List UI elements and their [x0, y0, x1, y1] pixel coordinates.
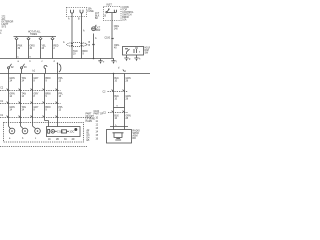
coil K1 [58, 64, 61, 74]
horn box [107, 130, 132, 144]
wire from JB down [111, 21, 113, 59]
connector line D2 [0, 103, 61, 105]
fuse F3 [39, 37, 42, 59]
wire W3 [32, 74, 34, 123]
switch S5 inside [106, 12, 107, 13]
node labels right of bus2 tick [125, 71, 127, 73]
fuse F2 [27, 37, 30, 59]
tie line right pair [114, 107, 125, 109]
svg-text:1K: 1K [48, 139, 51, 141]
switch S2 [22, 64, 25, 74]
fuse F1 [15, 37, 18, 59]
fuse F4 [51, 37, 54, 59]
resistor block [62, 130, 67, 133]
node legend text block [86, 113, 99, 143]
wire from F5 down [71, 17, 73, 59]
node lamp box labels [9, 138, 75, 141]
connector line D4 right [108, 112, 128, 114]
svg-text:RR: RR [133, 138, 137, 140]
wire W6 right [113, 74, 115, 130]
ground G1 [98, 59, 102, 61]
wire W4 [45, 74, 49, 127]
wire feed bracket HOT bus [14, 36, 57, 38]
motor M1 [51, 130, 55, 134]
wire from F6 down [81, 17, 83, 59]
horn symbol [113, 133, 124, 140]
connector C100 on wire [112, 38, 114, 39]
contacts inside [134, 48, 138, 53]
fuse block FB1 dashed box [67, 8, 87, 17]
junction block JB dashed box top-right [104, 7, 122, 21]
switch S1 [9, 64, 12, 74]
fuse F7 inside [114, 10, 116, 13]
fuse F5 [71, 10, 74, 17]
node label left of junction block [95, 13, 100, 20]
node wire label ORG [114, 26, 119, 31]
connector line D3 [0, 117, 92, 119]
horn tie [110, 126, 128, 128]
node wire labels row C [10, 106, 64, 112]
circuit breaker CB1 [92, 27, 96, 31]
node wire labels below C1 [73, 50, 88, 56]
wire W1 [8, 74, 10, 123]
ground G4 [134, 55, 138, 58]
node CB1 labels [95, 28, 101, 41]
svg-text:BKR: BKR [96, 30, 101, 32]
svg-text:TIMES: TIMES [30, 34, 37, 36]
terminal dot [74, 128, 77, 131]
wire W2 [20, 74, 22, 123]
node JB labels [105, 5, 135, 22]
svg-text:SYS: SYS [2, 27, 7, 29]
junction dot [93, 58, 95, 60]
node wire labels row B [10, 93, 131, 101]
switch S3 [44, 66, 47, 74]
svg-text:3C: 3C [64, 139, 67, 141]
motor sub box [47, 127, 81, 137]
svg-text:PART OF: PART OF [94, 113, 104, 116]
connector line D5 right upper [108, 91, 129, 93]
connector on CB wire [93, 44, 95, 45]
node note text block top-left [2, 17, 14, 29]
bottom dashed line [0, 146, 88, 148]
svg-text:10A: 10A [122, 18, 127, 21]
node bracket title [28, 31, 41, 37]
svg-text:2B: 2B [56, 139, 59, 141]
lamp L1 [9, 128, 15, 134]
wire W7 right [124, 74, 126, 130]
wire W5 [57, 74, 59, 127]
svg-text:INST: INST [107, 5, 113, 7]
lamp assembly dashed box [4, 123, 84, 143]
bus line 2 [0, 73, 150, 75]
node wire labels row A [10, 77, 131, 83]
fuse F6 [80, 10, 83, 17]
ground G3 [124, 55, 128, 58]
lamp L3 [35, 128, 41, 134]
lamp L2 [22, 128, 28, 134]
node left margin label A [0, 30, 2, 36]
svg-text:FUSE: FUSE [88, 11, 95, 13]
node small text above bus2 [33, 71, 36, 73]
node fuse wire labels [18, 45, 59, 50]
node fuse block labels [68, 8, 94, 21]
svg-text:1OC: 1OC [70, 131, 75, 133]
dimmer switch box right [123, 47, 144, 56]
ground G2 [111, 59, 115, 61]
bus line 1 [0, 58, 114, 60]
connector pin [48, 129, 50, 133]
node wire label [83, 30, 85, 33]
connector line D1 [0, 90, 61, 92]
node bus1 junction labels [18, 57, 56, 64]
svg-text:C100: C100 [105, 38, 111, 40]
switch S6 inside [125, 49, 130, 54]
svg-text:HARN: HARN [86, 120, 93, 123]
connector ellipse C1 on wires [67, 42, 87, 46]
svg-text:4D: 4D [72, 139, 75, 141]
node C100 label right of D3 [94, 111, 104, 116]
